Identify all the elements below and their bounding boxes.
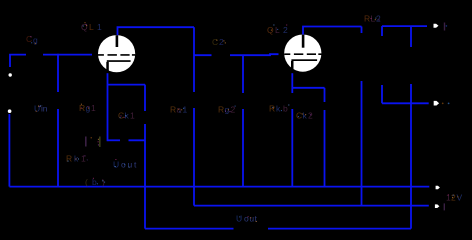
triode V2 grid (dashed)	[284, 53, 321, 55]
triode V2 envelope	[284, 35, 321, 72]
svg-text:R: R	[269, 104, 275, 114]
resistor R6 lower lead down to rail B	[410, 84, 412, 229]
svg-text:C: C	[212, 37, 218, 47]
label 12V supply	[446, 193, 463, 203]
wire cathode V2 down (Rk2 upper lead)	[291, 73, 293, 93]
resistor Rg1 upper lead	[57, 54, 59, 92]
capacitor Ck1 lower lead down to rail B	[144, 124, 146, 229]
resistor Rk2 lower lead	[291, 109, 293, 187]
label Ck2	[296, 111, 313, 121]
svg-text:R: R	[218, 105, 224, 115]
label V2 designator	[267, 25, 288, 35]
wire top right supply segment	[382, 25, 427, 27]
resistor Ra1 lower lead crossing ground bus	[193, 108, 195, 206]
svg-text:R: R	[66, 154, 72, 164]
capacitor C2 right lead to grid V2	[230, 54, 279, 55]
wire anode V1 to node A	[118, 27, 195, 35]
svg-text:2: 2	[376, 14, 381, 24]
triode V2 cathode lead (inside envelope)	[291, 61, 294, 72]
wire rail B left segment	[145, 228, 234, 230]
svg-text:L: L	[275, 25, 280, 35]
label Rg2	[218, 105, 236, 115]
triode V1 cathode lead (inside envelope)	[106, 62, 109, 73]
label terminal + top right	[444, 23, 447, 31]
resistor R5 upper lead	[381, 26, 383, 36]
svg-text:1: 1	[130, 111, 135, 121]
terminal arrow mid right	[434, 101, 439, 106]
resistor RL2 upper lead	[361, 27, 363, 34]
capacitor Ck1 upper lead	[144, 85, 146, 111]
svg-text:U: U	[113, 160, 119, 170]
svg-text:1: 1	[97, 22, 102, 32]
resistor Ra1 upper lead (node A down)	[193, 27, 195, 92]
label Rg1	[79, 103, 96, 113]
svg-text:2: 2	[308, 111, 313, 121]
svg-text:U: U	[34, 104, 40, 114]
label C1	[26, 34, 38, 45]
label terminal mid right dots	[442, 103, 450, 105]
wire cathode V2 branch to Ck2	[292, 87, 324, 89]
label Rk1	[66, 152, 88, 164]
label speckle highlights	[30, 18, 458, 222]
resistor R6 upper lead	[410, 26, 412, 47]
label node K1 bracket	[85, 137, 101, 148]
wire input lower to ground bus	[8, 114, 10, 187]
terminal arrow rail A	[435, 204, 440, 208]
terminal arrow top right	[434, 24, 439, 28]
capacitor Ck2 lower lead	[324, 110, 326, 187]
label RL2	[364, 14, 381, 24]
resistor Rg2 upper lead	[242, 55, 244, 93]
terminal input - (dot)	[8, 109, 12, 113]
capacitor Ck2 upper lead	[324, 88, 326, 102]
svg-text:1: 1	[91, 103, 96, 113]
wire cathode V1 down	[107, 73, 109, 141]
wire input top left segment	[10, 55, 26, 67]
label Rk2	[269, 104, 288, 114]
triode V1 cathode bar	[107, 60, 131, 62]
wire mid right to terminal	[382, 102, 429, 104]
svg-text:V: V	[457, 193, 463, 203]
triode V1 anode stem	[116, 35, 119, 47]
terminal input + (dot)	[9, 73, 12, 76]
capacitor C1 (coupling, right lead wire to grid V1)	[43, 54, 92, 56]
label Uin	[34, 104, 48, 114]
svg-text:out: out	[244, 214, 258, 224]
label Ra1	[170, 105, 188, 115]
label figure (b)	[85, 177, 105, 187]
svg-text:Q: Q	[267, 25, 274, 35]
resistor Rk1 left lead (horizontal)	[108, 139, 121, 141]
svg-text:2: 2	[283, 25, 288, 35]
label Ck1	[118, 111, 135, 121]
svg-text:Q: Q	[81, 22, 88, 32]
label Uout2	[236, 214, 258, 224]
svg-text:,: ,	[86, 152, 88, 162]
triode V1 envelope	[98, 35, 135, 72]
resistor Rg1 lower lead	[57, 109, 59, 187]
resistor Rg2 lower lead	[242, 109, 244, 187]
wire anode V2 to node B	[303, 27, 362, 36]
resistor RL2 lower lead down to rail A	[361, 81, 363, 206]
label C2	[212, 37, 224, 47]
svg-text:g: g	[86, 103, 91, 113]
capacitor C2 left lead (grid wire V2)	[194, 54, 212, 56]
svg-text:b: b	[283, 104, 288, 114]
svg-text:in: in	[41, 104, 48, 114]
triode V2 cathode bar	[291, 59, 317, 61]
svg-text:a: a	[177, 105, 182, 115]
resistor R5 lower lead	[381, 85, 383, 103]
label Uout1	[113, 160, 138, 170]
svg-text:2: 2	[219, 37, 224, 47]
wire rail B right segment	[268, 228, 411, 230]
svg-text:(: (	[85, 177, 88, 187]
svg-text:U: U	[236, 214, 242, 224]
resistor Rk1 right lead (horizontal)	[129, 139, 146, 141]
terminal arrow ground bus	[436, 186, 440, 190]
wire rail A to output terminal	[194, 205, 429, 207]
wire ground bus	[9, 186, 429, 188]
triode V2 anode stem	[302, 35, 305, 48]
svg-text:C: C	[26, 34, 32, 44]
svg-text:2: 2	[451, 193, 456, 203]
triode V1 grid (dashed)	[98, 54, 135, 56]
wire cathode V1 branch to Ck1	[108, 84, 146, 86]
svg-text:R: R	[79, 103, 85, 113]
svg-text:L: L	[89, 22, 94, 32]
label terminal rail A marker	[444, 203, 445, 210]
label V1 designator	[81, 22, 102, 32]
svg-text:R: R	[364, 14, 370, 24]
svg-text:R: R	[170, 105, 176, 115]
svg-text:C: C	[296, 111, 302, 121]
svg-text:1: 1	[183, 105, 188, 115]
svg-text:out: out	[121, 160, 138, 170]
svg-text:b: b	[92, 177, 97, 187]
